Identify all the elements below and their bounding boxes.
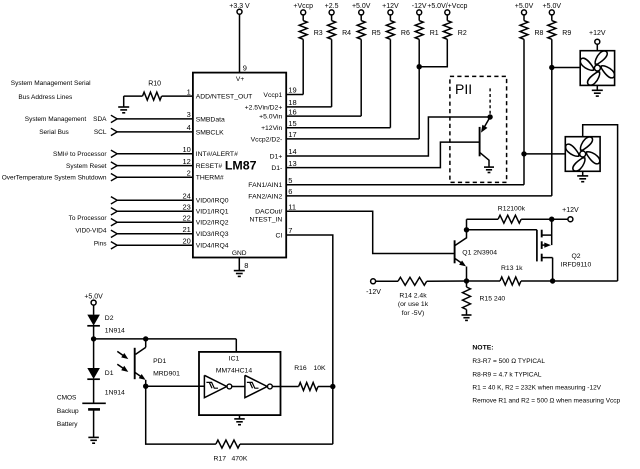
svg-text:6: 6 (288, 187, 292, 196)
svg-text:16: 16 (288, 107, 296, 116)
svg-text:LM87: LM87 (225, 159, 257, 173)
svg-text:13: 13 (288, 159, 296, 168)
svg-text:VID2/IRQ2: VID2/IRQ2 (196, 220, 229, 227)
svg-text:for -5V): for -5V) (402, 310, 425, 317)
svg-text:OverTemperature System Shutdow: OverTemperature System Shutdown (2, 174, 107, 181)
svg-text:+5.0V: +5.0V (352, 3, 371, 10)
svg-text:R10: R10 (148, 80, 161, 87)
svg-text:24: 24 (182, 192, 190, 201)
svg-text:11: 11 (288, 203, 296, 212)
svg-text:R9: R9 (562, 30, 571, 37)
svg-text:NOTE:: NOTE: (472, 345, 493, 352)
svg-text:FAN2/AIN2: FAN2/AIN2 (248, 193, 282, 200)
svg-text:Vccp1: Vccp1 (263, 92, 282, 99)
svg-text:9: 9 (243, 63, 247, 72)
svg-text:R1 = 40 K, R2 = 232K when mea: R1 = 40 K, R2 = 232K when measuring -12V (472, 384, 601, 391)
svg-text:FAN1/AIN1: FAN1/AIN1 (248, 182, 282, 189)
svg-text:Battery: Battery (57, 421, 78, 428)
svg-text:R8-R9 = 4.7 k TYPICAL: R8-R9 = 4.7 k TYPICAL (472, 371, 541, 378)
svg-text:SDA: SDA (93, 116, 107, 123)
svg-text:D1+: D1+ (270, 153, 283, 160)
svg-text:Remove R1 and R2 = 500 Ω when: Remove R1 and R2 = 500 Ω when measuring … (472, 397, 620, 404)
svg-text:14: 14 (288, 147, 296, 156)
svg-text:19: 19 (288, 86, 296, 95)
svg-text:NTEST_IN: NTEST_IN (249, 216, 282, 223)
svg-text:(or use 1k: (or use 1k (398, 301, 429, 308)
svg-text:MRD901: MRD901 (153, 371, 180, 378)
svg-text:THERM#: THERM# (196, 175, 224, 182)
svg-text:10K: 10K (314, 365, 327, 372)
svg-text:VID4/IRQ4: VID4/IRQ4 (196, 243, 229, 250)
svg-text:SMI# to Processor: SMI# to Processor (53, 151, 107, 158)
svg-text:R17: R17 (214, 455, 227, 462)
svg-text:3: 3 (187, 110, 191, 119)
svg-text:MM74HC14: MM74HC14 (216, 368, 252, 375)
svg-text:VID0/IRQ0: VID0/IRQ0 (196, 198, 229, 205)
svg-text:R8: R8 (535, 30, 544, 37)
svg-text:Bus Address Lines: Bus Address Lines (18, 94, 73, 101)
svg-text:R16: R16 (294, 365, 307, 372)
svg-text:+12V: +12V (382, 3, 399, 10)
svg-text:4: 4 (187, 123, 191, 132)
svg-text:Q2: Q2 (571, 253, 580, 260)
svg-text:-12V: -12V (366, 289, 381, 296)
svg-text:8: 8 (244, 261, 248, 270)
svg-text:Serial Bus: Serial Bus (39, 129, 69, 136)
svg-text:R2: R2 (458, 30, 467, 37)
svg-text:-12V: -12V (412, 3, 427, 10)
svg-text:+5.0V/+Vccp: +5.0V/+Vccp (427, 3, 467, 10)
svg-text:SCL: SCL (94, 129, 107, 136)
svg-text:R14 2.4k: R14 2.4k (399, 292, 427, 299)
svg-text:SMBData: SMBData (196, 116, 225, 123)
svg-text:ADD/NTEST_OUT: ADD/NTEST_OUT (196, 94, 253, 101)
svg-text:+12V: +12V (562, 207, 579, 214)
svg-text:470K: 470K (232, 455, 248, 462)
svg-text:5: 5 (288, 176, 292, 185)
svg-text:1N914: 1N914 (105, 389, 125, 396)
svg-text:R1: R1 (430, 30, 439, 37)
svg-text:1N914: 1N914 (105, 328, 125, 335)
svg-text:DACOut/: DACOut/ (255, 208, 282, 215)
svg-text:VID0-VID4: VID0-VID4 (75, 227, 106, 234)
svg-text:R5: R5 (372, 30, 381, 37)
svg-text:System Reset: System Reset (66, 163, 107, 170)
svg-text:D1-: D1- (271, 165, 282, 172)
svg-text:12: 12 (182, 157, 190, 166)
svg-text:Pins: Pins (94, 241, 107, 248)
svg-text:Vccp2/D2-: Vccp2/D2- (251, 136, 283, 143)
svg-text:17: 17 (288, 130, 296, 139)
svg-text:IRFD9110: IRFD9110 (561, 262, 592, 269)
svg-text:R13 1k: R13 1k (501, 265, 523, 272)
svg-text:+5.0Vin: +5.0Vin (259, 114, 282, 121)
svg-text:+5.0V: +5.0V (515, 3, 534, 10)
svg-text:+2.5: +2.5 (325, 3, 339, 10)
svg-text:+5.0V: +5.0V (543, 3, 562, 10)
svg-text:+Vccp: +Vccp (293, 3, 313, 10)
svg-text:21: 21 (182, 225, 190, 234)
svg-text:R12100k: R12100k (498, 205, 526, 212)
svg-text:CMOS: CMOS (57, 395, 77, 402)
svg-text:IC1: IC1 (229, 355, 240, 362)
svg-text:7: 7 (288, 226, 292, 235)
svg-text:RESET#: RESET# (196, 163, 223, 170)
svg-text:+12Vin: +12Vin (261, 125, 282, 132)
svg-text:R3-R7 = 500 Ω TYPICAL: R3-R7 = 500 Ω TYPICAL (472, 358, 545, 365)
svg-text:Q1 2N3904: Q1 2N3904 (462, 249, 497, 256)
svg-text:INT#/ALERT#: INT#/ALERT# (196, 151, 238, 158)
svg-text:R4: R4 (342, 30, 351, 37)
svg-text:20: 20 (182, 237, 190, 246)
svg-text:Backup: Backup (57, 408, 79, 415)
svg-text:System Management Serial: System Management Serial (11, 80, 91, 87)
svg-text:D1: D1 (105, 370, 114, 377)
svg-text:PD1: PD1 (153, 358, 166, 365)
svg-text:22: 22 (182, 213, 190, 222)
svg-text:GND: GND (232, 250, 247, 257)
svg-text:System Management: System Management (25, 116, 87, 123)
svg-text:23: 23 (182, 203, 190, 212)
svg-text:2: 2 (187, 168, 191, 177)
svg-text:VID1/IRQ1: VID1/IRQ1 (196, 209, 229, 216)
svg-text:R15 240: R15 240 (480, 295, 506, 302)
svg-text:18: 18 (288, 98, 296, 107)
svg-text:PII: PII (455, 81, 472, 97)
svg-text:+3.3 V: +3.3 V (229, 3, 250, 10)
svg-text:R3: R3 (314, 30, 323, 37)
svg-text:CI: CI (275, 232, 282, 239)
svg-text:+12V: +12V (589, 30, 606, 37)
svg-text:15: 15 (288, 119, 296, 128)
svg-text:+5.0V: +5.0V (84, 294, 103, 301)
svg-text:+2.5Vin/D2+: +2.5Vin/D2+ (245, 104, 283, 111)
svg-text:V+: V+ (236, 76, 244, 83)
svg-text:D2: D2 (105, 315, 114, 322)
svg-text:10: 10 (182, 145, 190, 154)
svg-text:1: 1 (187, 87, 191, 96)
svg-text:To Processor: To Processor (69, 215, 108, 222)
svg-text:SMBCLK: SMBCLK (196, 129, 224, 136)
svg-text:VID3/IRQ3: VID3/IRQ3 (196, 231, 229, 238)
svg-text:R6: R6 (401, 30, 410, 37)
